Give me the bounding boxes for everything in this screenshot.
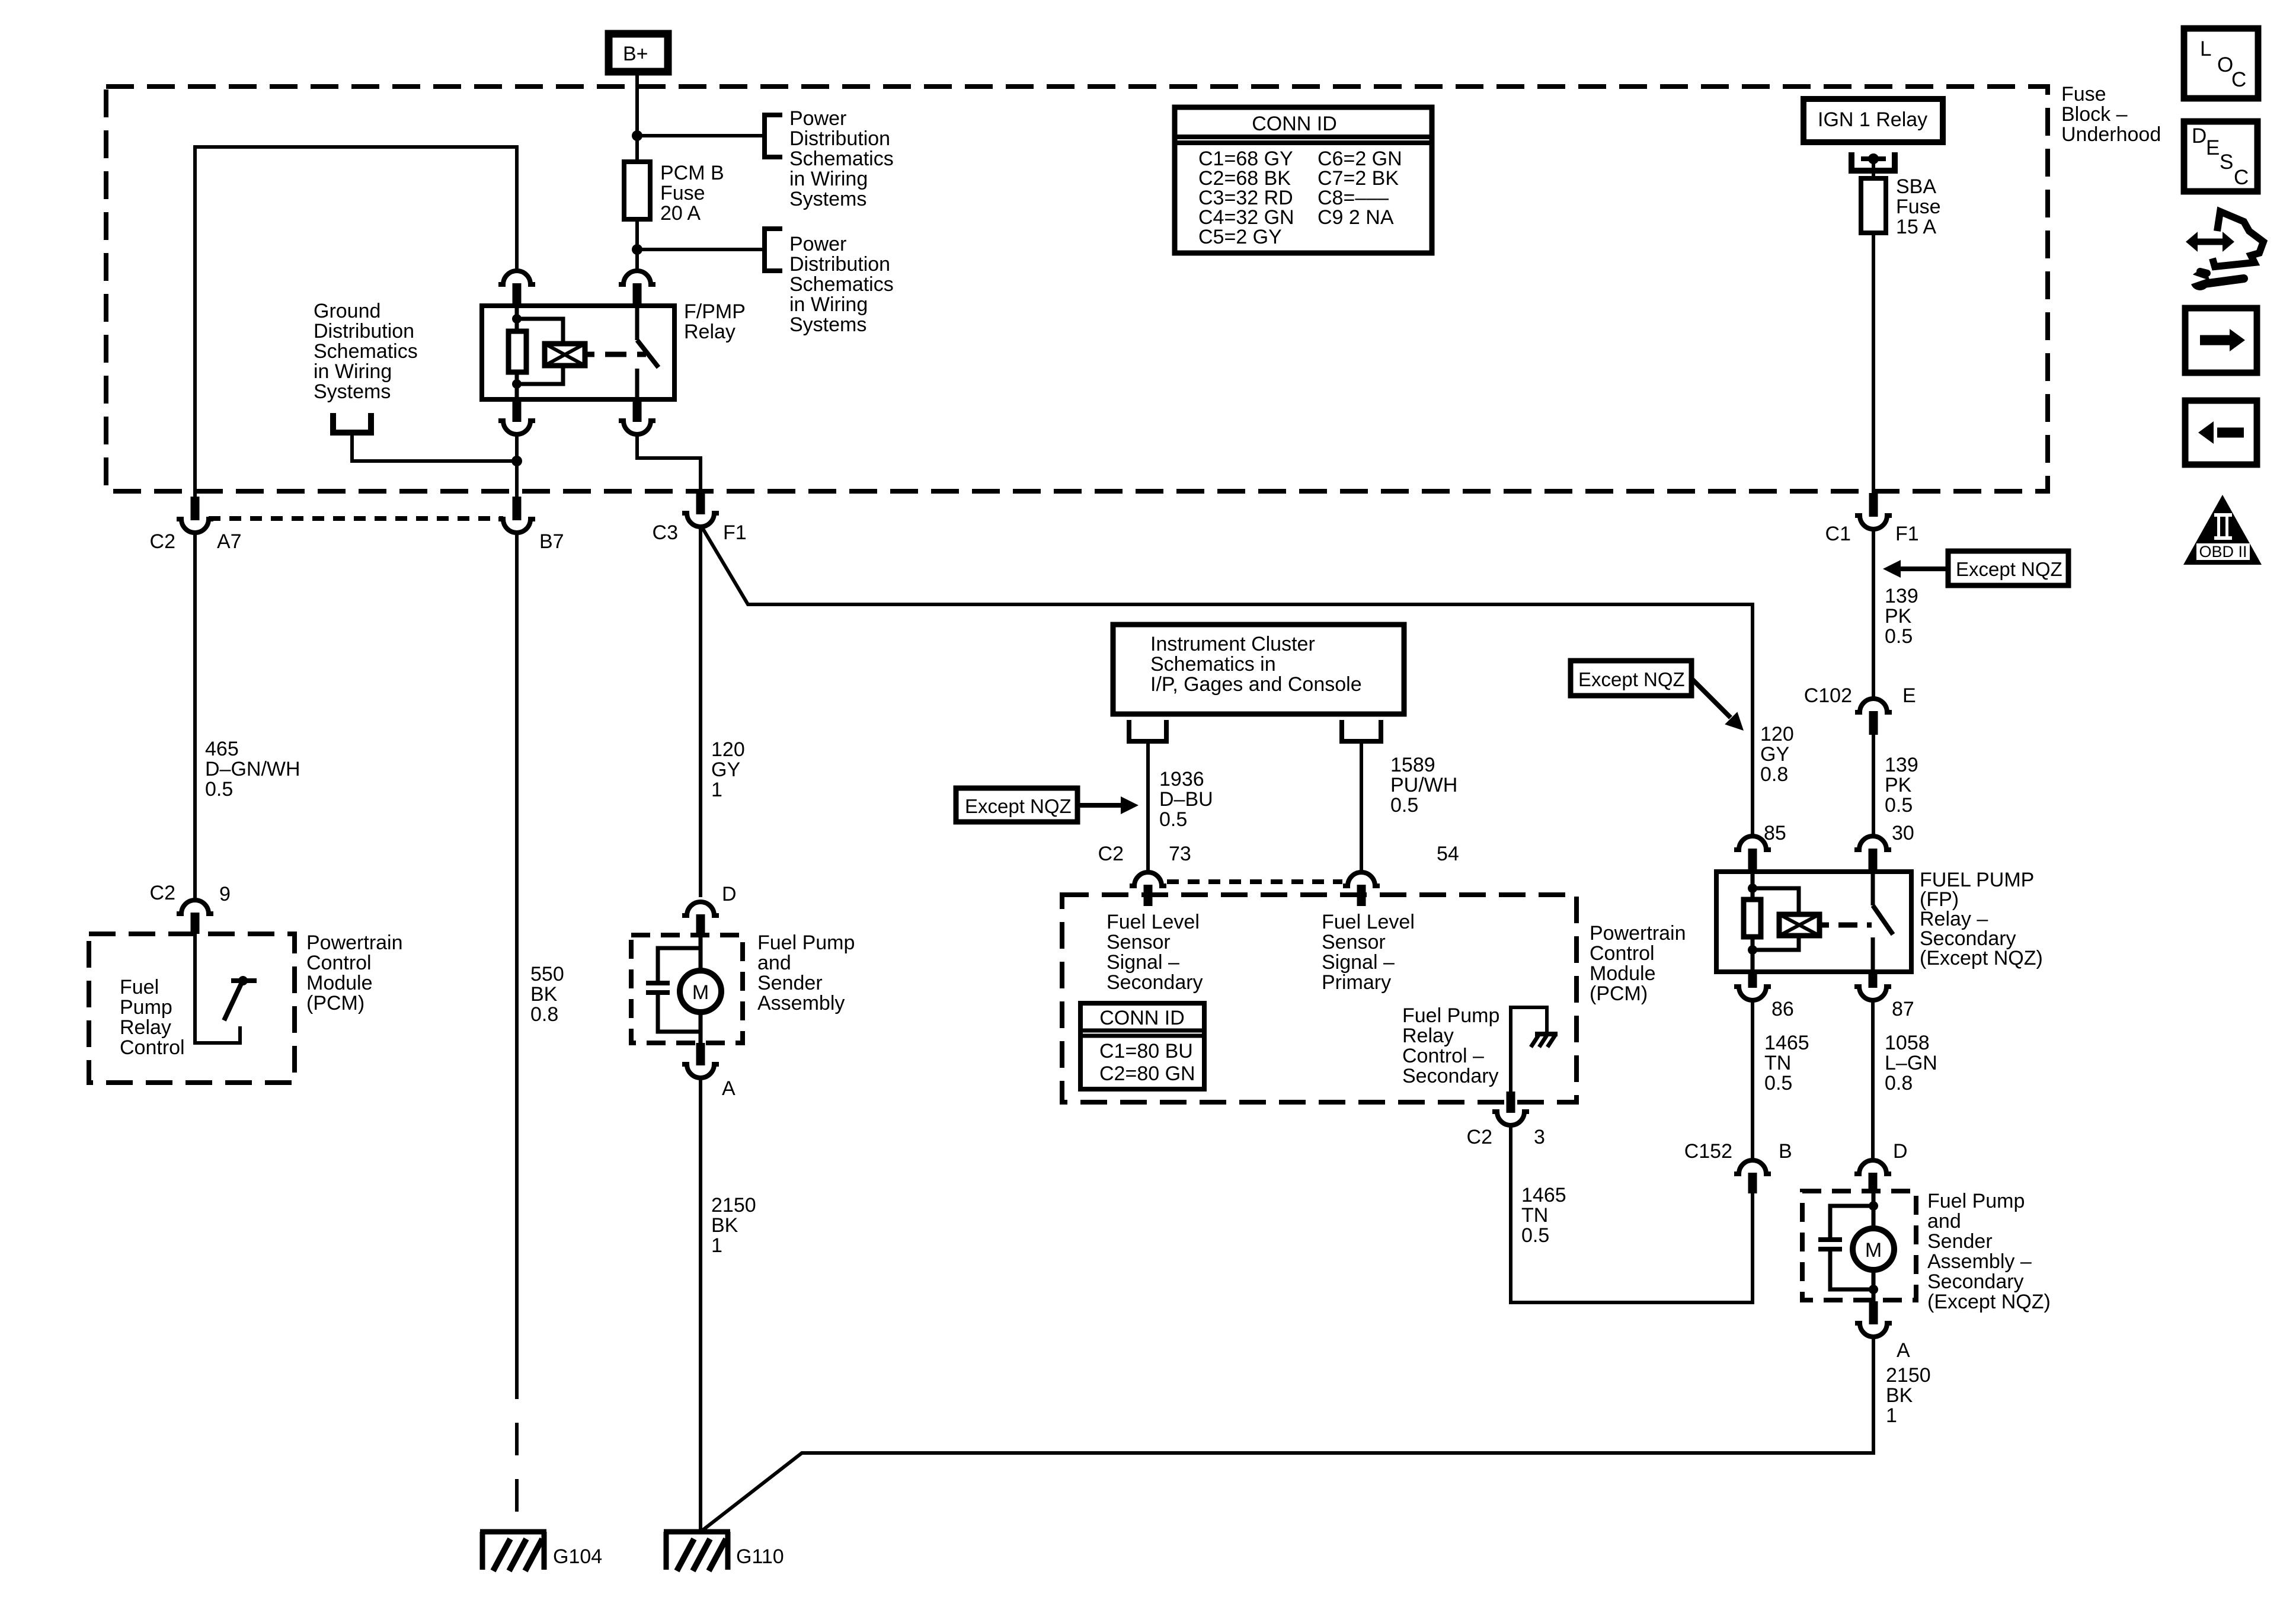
wire IGN 1 relay to SBA fuse [1872, 159, 1875, 181]
dotted link A7 to B7 [209, 516, 503, 521]
svg-text:C2=80 GN: C2=80 GN [1099, 1062, 1195, 1085]
icon OBD II triangle [2183, 495, 2262, 565]
svg-text:Fuel Level: Fuel Level [1107, 911, 1200, 933]
svg-text:in Wiring: in Wiring [314, 360, 392, 383]
svg-text:Module: Module [306, 972, 373, 994]
svg-text:CONN ID: CONN ID [1252, 113, 1337, 135]
wire 465 D-GN/WH from A7 to PCM [193, 533, 197, 901]
connector D at fuel pump secondary [1854, 1160, 1891, 1174]
instrument cluster left leg bracket [1129, 720, 1166, 741]
svg-text:20 A: 20 A [660, 202, 701, 225]
svg-text:Control –: Control – [1402, 1045, 1484, 1067]
svg-text:Relay: Relay [120, 1016, 171, 1039]
arrow except NQZ to wire 1936 [1077, 803, 1123, 808]
wire F/PMP coil return down to B7 [515, 433, 519, 498]
svg-text:Power: Power [789, 107, 846, 130]
relay IGN 1 socket [1851, 152, 1895, 171]
arrow except NQZ to wire 120 GY [1690, 677, 1731, 718]
svg-text:IGN 1 Relay: IGN 1 Relay [1818, 108, 1927, 131]
connector A at fuel pump primary [696, 1043, 705, 1065]
svg-text:1: 1 [711, 1234, 722, 1257]
svg-text:139: 139 [1885, 585, 1918, 607]
CONN ID table small [1080, 1003, 1204, 1089]
svg-text:9: 9 [219, 883, 231, 905]
svg-text:Systems: Systems [789, 313, 866, 336]
svg-text:Sender: Sender [1927, 1230, 1993, 1253]
wire branch to power distribution (upper) [637, 134, 765, 137]
svg-text:G110: G110 [736, 1545, 784, 1568]
node pump secondary top [1869, 1201, 1878, 1211]
svg-text:D: D [722, 883, 737, 905]
svg-text:Sensor: Sensor [1107, 931, 1171, 953]
svg-text:87: 87 [1892, 998, 1914, 1020]
except NQZ callout box 1 [956, 788, 1077, 822]
except NQZ callout box 2 [1948, 551, 2068, 585]
svg-text:S: S [2220, 151, 2233, 174]
wire 120 GY from C3 F1 down to fuel pump [699, 527, 702, 897]
svg-text:54: 54 [1437, 843, 1459, 865]
svg-text:Fuse: Fuse [2061, 83, 2106, 105]
fuel pump and sender assembly dashed box [631, 935, 743, 1043]
svg-text:2150: 2150 [1886, 1364, 1931, 1387]
icon DESC box [2184, 121, 2257, 191]
wire fuel pump relay control secondary to ground [1511, 1007, 1547, 1093]
relay F/PMP suppressor box with X [545, 344, 585, 366]
svg-text:BK: BK [711, 1214, 738, 1237]
relay F/PMP suppressor loop [517, 319, 563, 344]
svg-text:(PCM): (PCM) [306, 992, 364, 1014]
CONN ID table [1175, 107, 1432, 253]
svg-text:D: D [2192, 124, 2207, 148]
icon arrow right box [2185, 308, 2257, 373]
svg-text:1465: 1465 [1764, 1032, 1809, 1054]
svg-text:PU/WH: PU/WH [1390, 774, 1457, 796]
svg-text:Distribution: Distribution [789, 253, 890, 276]
svg-text:Relay: Relay [1402, 1025, 1454, 1047]
fuse SBA 15 A [1861, 178, 1886, 233]
svg-text:L–GN: L–GN [1885, 1052, 1937, 1074]
except NQZ callout box 3 [1571, 661, 1691, 696]
svg-text:Fuel Pump: Fuel Pump [1927, 1190, 2025, 1212]
svg-text:86: 86 [1771, 998, 1794, 1020]
svg-text:550: 550 [530, 963, 564, 985]
svg-text:Fuel Pump: Fuel Pump [757, 932, 855, 954]
relay IGN 1 box [1803, 99, 1943, 142]
svg-text:C1=80 BU: C1=80 BU [1099, 1040, 1193, 1062]
svg-text:Signal –: Signal – [1322, 951, 1395, 974]
ground distribution bracket [333, 413, 371, 433]
relay FP coil wires [1751, 872, 1755, 900]
node junction above PCM B fuse [632, 130, 642, 141]
connector C2 pin 9 at PCM [177, 900, 213, 914]
svg-text:Assembly: Assembly [757, 992, 845, 1014]
relay FP suppressor loop [1753, 888, 1799, 914]
svg-text:and: and [1927, 1210, 1961, 1233]
svg-text:C102: C102 [1804, 684, 1852, 707]
svg-text:0.8: 0.8 [1760, 763, 1788, 786]
relay F/PMP switch [635, 306, 639, 340]
fuel pump primary internal wires [699, 935, 703, 972]
svg-text:M: M [692, 981, 709, 1004]
relay FP suppressor box with X [1779, 914, 1819, 936]
power distribution bracket (lower) [765, 229, 782, 271]
svg-text:TN: TN [1764, 1052, 1791, 1074]
relay FP switch [1871, 872, 1875, 905]
connector C102 pin E [1855, 699, 1892, 712]
svg-text:and: and [757, 952, 791, 974]
instrument cluster box [1113, 625, 1404, 714]
connector C2 pin 73 at PCM [1130, 872, 1166, 886]
svg-text:3: 3 [1534, 1126, 1545, 1148]
node coil return junction [511, 456, 522, 466]
node IGN 1 relay output [1868, 153, 1879, 164]
svg-text:E: E [2206, 136, 2220, 159]
svg-text:Relay: Relay [684, 321, 736, 343]
wire B+ feed down to F/PMP relay [635, 72, 639, 272]
relay F/PMP box [482, 306, 674, 399]
svg-text:Module: Module [1590, 962, 1656, 985]
svg-text:Except NQZ: Except NQZ [1578, 668, 1685, 690]
svg-text:GY: GY [711, 758, 740, 781]
node FP coil top [1748, 884, 1757, 893]
svg-text:OBD II: OBD II [2199, 543, 2247, 561]
power distribution bracket (upper) [765, 115, 782, 157]
wire 1058 L-GN from 87 [1871, 1000, 1875, 1160]
svg-text:Schematics: Schematics [789, 148, 894, 170]
svg-text:Fuse: Fuse [660, 182, 705, 204]
capacitor fuel pump primary [646, 981, 670, 985]
wire 1589 PU/WH [1360, 741, 1363, 873]
connector pin 30 into FP relay [1854, 836, 1891, 850]
svg-text:Except NQZ: Except NQZ [1956, 558, 2062, 580]
connector C1 F1 [1869, 493, 1878, 517]
connector pin 54 at PCM [1343, 872, 1380, 886]
svg-text:15 A: 15 A [1896, 216, 1936, 238]
svg-text:0.5: 0.5 [1159, 808, 1187, 831]
svg-text:Sensor: Sensor [1322, 931, 1386, 953]
svg-text:Fuel Level: Fuel Level [1322, 911, 1415, 933]
svg-text:A7: A7 [217, 530, 242, 553]
ground G110 [664, 1529, 730, 1535]
svg-text:E: E [1902, 684, 1916, 707]
fuel pump relay control driver switch [195, 934, 240, 1043]
relay F/PMP coil element [509, 331, 526, 372]
wire 550 BK from B7 down [515, 533, 519, 1366]
relay FUEL PUMP (FP) secondary box [1716, 872, 1911, 972]
svg-text:in Wiring: in Wiring [789, 168, 868, 190]
wire branch F1 to fuel pump relay secondary [702, 527, 1753, 837]
svg-text:L: L [2200, 37, 2211, 60]
svg-text:Powertrain: Powertrain [306, 932, 403, 954]
wire 1465 TN from C2 3 to C152 [1511, 1125, 1753, 1302]
fuel pump and sender assembly secondary dashed box [1802, 1191, 1916, 1300]
dashed link 73 to 54 [1167, 879, 1342, 884]
wire 1465 TN from 86 [1751, 1000, 1754, 1160]
svg-text:CONN ID: CONN ID [1099, 1007, 1185, 1029]
motor M fuel pump secondary [1853, 1228, 1894, 1270]
connector into F/PMP relay coil (left) [498, 271, 535, 284]
svg-text:C2: C2 [150, 530, 175, 553]
svg-text:73: 73 [1169, 843, 1191, 865]
PCM (left) dashed box [89, 934, 295, 1083]
svg-text:C: C [2231, 68, 2246, 91]
svg-text:C9 2 NA: C9 2 NA [1318, 206, 1394, 229]
relay FP actuation dashes [1838, 923, 1872, 928]
svg-text:C2: C2 [1098, 843, 1124, 865]
svg-text:1465: 1465 [1521, 1184, 1566, 1206]
ground G104 [480, 1529, 546, 1535]
svg-text:C152: C152 [1684, 1140, 1732, 1163]
svg-text:1: 1 [1886, 1404, 1897, 1427]
capacitor fuel pump secondary [1818, 1237, 1842, 1242]
connector D at fuel pump primary [682, 902, 719, 916]
svg-text:120: 120 [711, 738, 745, 761]
wire branch to power distribution (lower) [637, 248, 765, 251]
svg-text:D: D [1893, 1140, 1908, 1163]
PCM (middle) dashed box [1062, 895, 1576, 1102]
svg-text:Control: Control [306, 952, 372, 974]
svg-text:B: B [1779, 1140, 1792, 1163]
svg-text:D–BU: D–BU [1159, 788, 1213, 811]
svg-text:C: C [2234, 166, 2249, 189]
svg-text:Secondary: Secondary [1402, 1065, 1499, 1087]
wire dashed continuation to G104 [515, 1366, 519, 1532]
svg-text:Block –: Block – [2061, 103, 2128, 126]
svg-text:GY: GY [1760, 743, 1789, 766]
svg-text:PK: PK [1885, 774, 1912, 796]
connector C2 A7 [191, 497, 200, 520]
svg-text:465: 465 [205, 738, 239, 760]
svg-text:(PCM): (PCM) [1590, 982, 1648, 1005]
svg-text:(Except NQZ): (Except NQZ) [1920, 947, 2043, 969]
arrow except NQZ to wire 139 [1900, 566, 1948, 571]
svg-text:C3: C3 [653, 521, 678, 544]
svg-text:in Wiring: in Wiring [789, 293, 868, 316]
svg-text:Underhood: Underhood [2061, 123, 2161, 146]
svg-text:0.5: 0.5 [1764, 1072, 1792, 1094]
node FP coil bottom [1748, 945, 1757, 955]
fuel pump secondary internal wires [1872, 1191, 1876, 1230]
connector out of F/PMP relay coil (bottom left) [513, 399, 522, 422]
svg-text:BK: BK [1886, 1384, 1913, 1407]
wire F/PMP switch out to C3 F1 [637, 433, 701, 495]
svg-text:D–GN/WH: D–GN/WH [205, 758, 300, 780]
svg-text:1589: 1589 [1390, 754, 1435, 776]
svg-text:Systems: Systems [314, 380, 391, 403]
svg-text:Schematics: Schematics [789, 273, 894, 296]
svg-text:BK: BK [530, 983, 558, 1006]
icon LOC box [2184, 28, 2258, 98]
relay FP coil element [1744, 900, 1761, 937]
svg-text:Secondary: Secondary [1927, 1270, 2024, 1293]
svg-text:C1: C1 [1825, 523, 1851, 545]
svg-text:Powertrain: Powertrain [1590, 922, 1686, 945]
svg-text:139: 139 [1885, 754, 1918, 776]
wire ground loop from A7 to F/PMP relay coil [195, 147, 517, 500]
svg-text:0.5: 0.5 [1390, 794, 1418, 817]
node coil top [512, 314, 522, 324]
svg-text:Distribution: Distribution [314, 320, 414, 343]
fuse PCM B 20 A [624, 162, 650, 219]
svg-text:Schematics in: Schematics in [1150, 653, 1276, 676]
svg-text:85: 85 [1764, 822, 1786, 844]
svg-text:F/PMP: F/PMP [684, 300, 746, 323]
svg-text:0.5: 0.5 [1885, 794, 1913, 817]
connector into F/PMP relay switch (right) [619, 271, 655, 284]
svg-text:30: 30 [1892, 822, 1914, 844]
svg-text:Control: Control [120, 1036, 185, 1059]
connector pin 87 out of FP relay [1869, 972, 1878, 988]
relay F/PMP coil wires [515, 306, 519, 331]
wire 2150 BK from fuel pump primary to G110 [699, 1077, 702, 1532]
svg-text:Schematics: Schematics [314, 340, 418, 363]
svg-text:Systems: Systems [789, 188, 866, 210]
motor M fuel pump primary [680, 971, 721, 1012]
svg-text:I/P, Gages and Console: I/P, Gages and Console [1150, 673, 1362, 696]
connector out of F/PMP relay switch (bottom right) [633, 399, 642, 422]
svg-text:C2: C2 [150, 882, 175, 904]
node pump secondary bottom [1869, 1285, 1878, 1294]
svg-text:Ground: Ground [314, 300, 380, 322]
svg-text:Control: Control [1590, 942, 1655, 965]
icon diagnostic wrench [2193, 239, 2227, 245]
capacitor loop fuel pump primary [658, 948, 701, 983]
svg-text:Primary: Primary [1322, 971, 1391, 994]
connector pin 85 into FP relay [1734, 836, 1771, 850]
node coil bottom [512, 379, 522, 389]
fuse block - underhood dashed outline [106, 87, 2048, 491]
svg-text:Fuel: Fuel [120, 976, 159, 998]
wire 1936 D-BU [1146, 741, 1150, 873]
wire SBA fuse down to C1 F1 [1872, 233, 1875, 501]
svg-text:G104: G104 [553, 1545, 602, 1568]
svg-text:Secondary: Secondary [1107, 971, 1203, 994]
svg-text:C2: C2 [1467, 1126, 1492, 1148]
svg-text:Instrument Cluster: Instrument Cluster [1150, 633, 1315, 655]
svg-text:PCM B: PCM B [660, 162, 724, 184]
svg-text:1: 1 [711, 779, 722, 801]
svg-text:A: A [1897, 1339, 1910, 1362]
connector A at fuel pump secondary [1869, 1301, 1878, 1324]
wire ground distribution to coil return [352, 433, 517, 461]
svg-text:1058: 1058 [1885, 1032, 1930, 1054]
svg-text:SBA: SBA [1896, 175, 1936, 198]
svg-text:0.8: 0.8 [1885, 1072, 1913, 1094]
svg-text:PK: PK [1885, 605, 1912, 628]
svg-text:F1: F1 [723, 521, 747, 544]
svg-text:B7: B7 [539, 530, 564, 553]
wire 139 PK lower [1872, 735, 1875, 837]
svg-text:Assembly –: Assembly – [1927, 1250, 2032, 1273]
svg-text:0.8: 0.8 [530, 1003, 558, 1026]
svg-text:Pump: Pump [120, 996, 172, 1019]
svg-text:(Except NQZ): (Except NQZ) [1927, 1291, 2051, 1313]
svg-text:Except NQZ: Except NQZ [965, 795, 1072, 817]
instrument cluster right leg bracket [1342, 720, 1381, 741]
capacitor loop fuel pump secondary [1830, 1206, 1873, 1240]
svg-text:TN: TN [1521, 1204, 1548, 1227]
svg-text:0.5: 0.5 [205, 778, 233, 801]
node junction below PCM B fuse [632, 244, 642, 255]
svg-text:2150: 2150 [711, 1194, 756, 1217]
chassis ground in PCM [1535, 1032, 1558, 1036]
svg-text:120: 120 [1760, 723, 1794, 745]
svg-text:Distribution: Distribution [789, 127, 890, 150]
svg-text:Power: Power [789, 233, 846, 255]
connector C2 pin 3 [1507, 1092, 1515, 1113]
svg-text:M: M [1865, 1239, 1882, 1262]
connector C152 pin B [1734, 1160, 1771, 1174]
svg-text:C5=2 GY: C5=2 GY [1198, 226, 1282, 248]
wire 139 PK upper [1872, 529, 1875, 699]
svg-text:0.5: 0.5 [1885, 625, 1913, 648]
connector C3 F1 [696, 492, 705, 514]
svg-text:Fuse: Fuse [1896, 196, 1941, 218]
svg-text:0.5: 0.5 [1521, 1224, 1549, 1247]
svg-text:Fuel Pump: Fuel Pump [1402, 1004, 1499, 1027]
svg-text:A: A [722, 1077, 736, 1100]
wire diagonal and run from G110 to secondary pump return [701, 1336, 1873, 1532]
svg-text:1936: 1936 [1159, 768, 1204, 790]
icon arrow left box [2185, 401, 2257, 465]
relay F/PMP actuation dashes [605, 352, 646, 357]
svg-text:F1: F1 [1895, 523, 1919, 545]
svg-text:B+: B+ [623, 43, 648, 65]
connector B7 [513, 497, 522, 520]
svg-text:Sender: Sender [757, 972, 823, 994]
svg-text:Signal –: Signal – [1107, 951, 1179, 974]
connector pin 86 out of FP relay [1748, 972, 1757, 988]
B+ battery terminal [609, 34, 668, 72]
